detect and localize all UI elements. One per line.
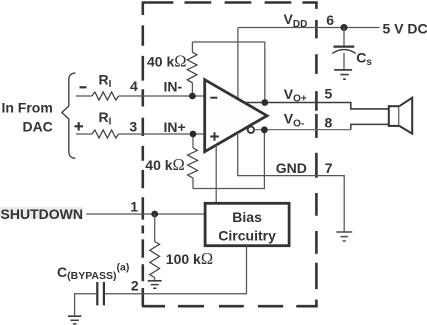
svg-text:5: 5	[325, 85, 333, 101]
op-amp inversion bubble	[248, 127, 254, 133]
wire GND from op-amp to pin 7 and ground	[238, 133, 345, 232]
svg-text:7: 7	[325, 160, 333, 176]
ground below Cs	[334, 69, 352, 71]
svg-text:GND: GND	[276, 160, 307, 176]
svg-text:40 kΩ: 40 kΩ	[147, 51, 187, 70]
wire bypass cap to ground	[75, 294, 97, 316]
junction dot IN+ node	[190, 131, 197, 138]
SHUTDOWN highlight band	[0, 207, 83, 219]
op-amp U1 triangle	[205, 80, 267, 152]
resistor 40k lower feedback	[192, 134, 194, 189]
IC boundary dashed box: right edge (with pin ticks 6,5,8,7)	[315, 2, 318, 307]
resistor 40k upper feedback	[191, 42, 193, 96]
ground below bypass cap	[68, 315, 81, 317]
brace for In From DAC	[62, 73, 76, 158]
capacitor Cs	[343, 28, 345, 70]
speaker	[389, 106, 400, 126]
junction dot VDD node	[341, 24, 348, 31]
wire VDD from op-amp top to pin 6 and 5 V DC	[238, 28, 380, 100]
svg-text:1: 1	[130, 198, 138, 214]
op-amp plus input mark	[210, 132, 219, 141]
wire upper feedback to VO+	[192, 42, 264, 103]
svg-text:40 kΩ: 40 kΩ	[145, 155, 185, 174]
svg-text:In From: In From	[1, 100, 52, 116]
junction dot VO+	[261, 99, 268, 106]
junction dot VO-	[261, 126, 268, 133]
IC boundary dashed box: bottom edge	[142, 305, 318, 308]
svg-text:IN-: IN-	[164, 78, 183, 94]
svg-text:SHUTDOWN: SHUTDOWN	[1, 206, 83, 222]
svg-text:3: 3	[129, 118, 137, 134]
wire op-amp bias to Bias Circuitry box	[215, 145, 217, 203]
IC boundary dashed box: top edge	[142, 1, 318, 4]
svg-text:Bias: Bias	[232, 209, 262, 225]
resistor 100k pulldown	[154, 214, 156, 280]
junction dot IN- node	[189, 93, 196, 100]
IC boundary dashed box: left edge (with pin ticks 4,3,1,2)	[142, 2, 145, 307]
wire IN+ from DAC to op-amp	[76, 133, 205, 135]
svg-text:Circuitry: Circuitry	[218, 227, 276, 243]
wire IN- from DAC to op-amp	[76, 95, 205, 97]
svg-text:100 kΩ: 100 kΩ	[166, 249, 213, 268]
wire lower feedback to VO-	[193, 130, 264, 189]
capacitor C(BYPASS)	[97, 282, 104, 305]
svg-text:6: 6	[326, 12, 334, 28]
wire VO- to pin 8 and speaker	[254, 129, 351, 131]
svg-text:4: 4	[130, 78, 138, 94]
wire SHUTDOWN to pin 1 and bias	[86, 213, 205, 215]
svg-text:8: 8	[325, 115, 333, 131]
junction dot shutdown node	[151, 211, 158, 218]
resistor RI (upper)	[92, 92, 119, 100]
wire VO+ to pin 5 and speaker	[245, 103, 389, 109]
op-amp minus input mark	[210, 97, 217, 99]
minus polarity mark	[80, 86, 87, 88]
svg-text:DAC: DAC	[22, 119, 52, 135]
resistor RI (lower)	[92, 130, 119, 138]
Bias Circuitry box	[205, 203, 289, 245]
plus polarity mark	[75, 122, 84, 130]
ground below 100k	[148, 280, 162, 282]
svg-text:5 V DC: 5 V DC	[383, 21, 427, 37]
svg-text:2: 2	[131, 278, 139, 294]
svg-text:IN+: IN+	[164, 119, 186, 135]
wire bias box bottom to pin 2 bypass node	[104, 246, 247, 294]
ground below pin 7	[336, 231, 352, 233]
